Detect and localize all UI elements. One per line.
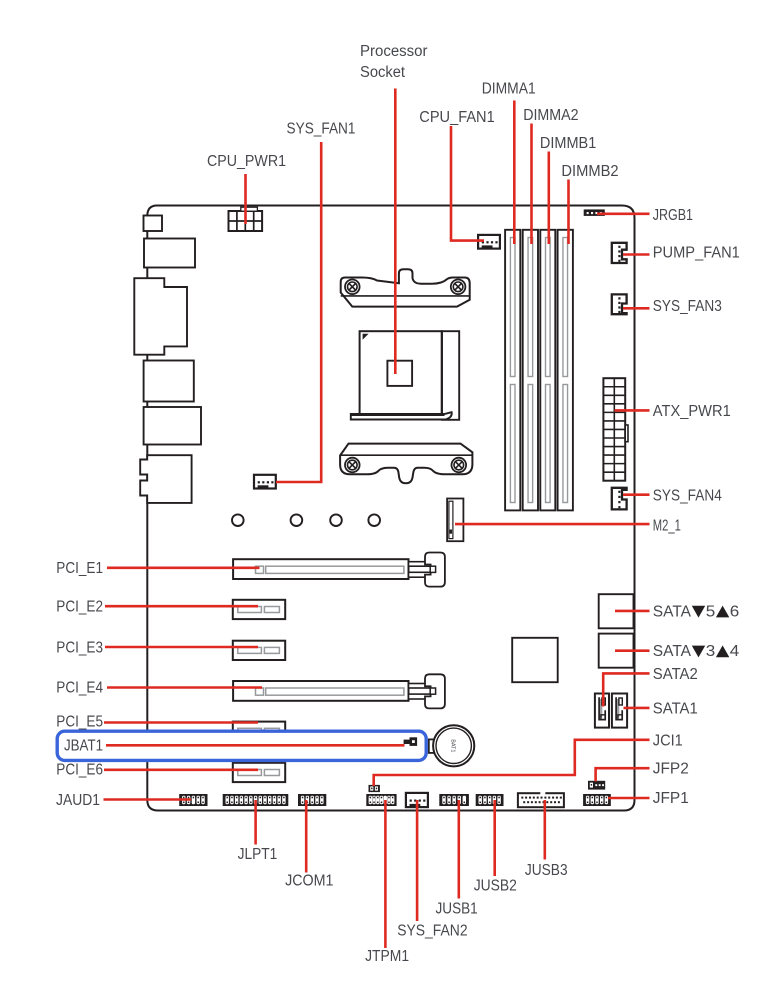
svg-text:JLPT1: JLPT1 [238, 846, 278, 863]
leader PCI_E4 [107, 686, 262, 689]
leader M2_1 [455, 523, 650, 526]
svg-text:SYS_FAN2: SYS_FAN2 [397, 923, 467, 940]
svg-text:SATA: SATA [653, 603, 692, 620]
svg-text:DIMMA1: DIMMA1 [482, 81, 536, 98]
connector SATA 5/6 block [599, 594, 634, 628]
svg-text:SATA2: SATA2 [653, 666, 698, 683]
leader PCI_E1 [107, 566, 260, 569]
CPU cooler retention bracket (top) [341, 269, 470, 306]
header JTPM1 [366, 794, 396, 806]
svg-text:CPU_FAN1: CPU_FAN1 [419, 109, 494, 126]
leader JTPM1 [384, 800, 387, 948]
connector SATA1 [612, 694, 627, 728]
CPU socket AM4 [360, 331, 442, 414]
io port video connector [134, 278, 187, 355]
leader JFP2 [596, 768, 650, 781]
motherboard outline [147, 206, 634, 811]
leader SYS_FAN3 [623, 307, 650, 310]
battery BAT1 [429, 725, 475, 766]
svg-text:JBAT1: JBAT1 [64, 738, 103, 755]
svg-text:JFP2: JFP2 [653, 761, 689, 778]
svg-text:PCI_E3: PCI_E3 [56, 639, 103, 656]
svg-text:DIMMB2: DIMMB2 [561, 163, 618, 180]
CPU socket bottom lever bar [351, 412, 452, 419]
leader SATA 5/6 [615, 610, 650, 613]
svg-text:JAUD1: JAUD1 [56, 792, 100, 809]
mounting holes [232, 514, 380, 526]
highlight box JBAT1 [57, 731, 426, 760]
leader Processor Socket [394, 89, 397, 375]
fan header SYS_FAN1 [254, 475, 276, 489]
DIMM slots DIMMA1 DIMMA2 DIMMB1 DIMMB2 [505, 230, 573, 511]
connector JCI1 [369, 785, 380, 792]
leader DIMMA1 [513, 101, 516, 245]
leader JUSB1 [457, 800, 460, 899]
leader DIMMA2 [530, 124, 533, 245]
connector SATA2 [595, 694, 609, 728]
slot PCI_E4 (x16) [233, 674, 445, 708]
svg-text:BAT1: BAT1 [450, 739, 456, 752]
svg-text:Processor: Processor [360, 43, 428, 60]
svg-text:PCI_E2: PCI_E2 [56, 598, 103, 615]
leader JFP1 [608, 797, 650, 800]
leader PCI_E6 [104, 768, 258, 771]
io port USB block [144, 239, 195, 268]
leader SYS_FAN1 [276, 142, 321, 482]
svg-text:5: 5 [706, 603, 716, 620]
slot PCI_E3 (x1) [233, 641, 285, 660]
leader PCI_E3 [105, 646, 258, 649]
leader DIMMB2 [567, 180, 570, 245]
svg-text:JFP1: JFP1 [653, 790, 689, 807]
connector M2_1 [447, 499, 463, 542]
leader SATA 3/4 [615, 649, 650, 652]
leader JRGB1 [597, 213, 650, 216]
io port LAN [144, 361, 194, 402]
leader JLPT1 [254, 800, 257, 845]
header JLPT1 [223, 794, 289, 806]
svg-text:JTPM1: JTPM1 [365, 948, 409, 965]
leader PCI_E2 [105, 605, 258, 608]
header JCOM1 [298, 794, 326, 806]
svg-text:6: 6 [730, 603, 740, 620]
header JAUD1 [179, 794, 207, 806]
connector ATX_PWR1 (24-pin) [603, 378, 628, 481]
svg-text:DIMMB1: DIMMB1 [540, 135, 596, 152]
leader DIMMB1 [547, 152, 550, 245]
connector CPU_PWR1 (8-pin power) [229, 207, 263, 231]
slot PCI_E2 (x1) [233, 600, 285, 619]
svg-text:SYS_FAN3: SYS_FAN3 [653, 298, 722, 315]
leader JAUD1 [104, 798, 192, 801]
leader CPU_PWR1 [244, 174, 247, 224]
leader JUSB3 [543, 800, 546, 860]
svg-text:SATA1: SATA1 [653, 700, 698, 717]
leader JBAT1 [106, 744, 405, 747]
leader SYS_FAN4 [623, 493, 650, 496]
io port audio jacks [140, 455, 191, 503]
leader SATA2 [603, 673, 649, 706]
svg-text:SATA: SATA [653, 643, 692, 660]
slot PCI_E6 (x1) [233, 763, 285, 782]
leader JCOM1 [305, 800, 308, 873]
svg-text:M2_1: M2_1 [653, 517, 681, 534]
connector SATA 3/4 block [599, 634, 634, 668]
svg-text:CPU_PWR1: CPU_PWR1 [207, 153, 286, 170]
svg-text:PUMP_FAN1: PUMP_FAN1 [653, 244, 740, 261]
svg-text:4: 4 [730, 643, 740, 660]
header JFP1 [583, 794, 611, 806]
svg-text:JUSB1: JUSB1 [436, 901, 478, 918]
chipset [512, 638, 558, 682]
header JUSB1 [439, 794, 469, 806]
fan header SYS_FAN2 [406, 793, 428, 807]
svg-text:Socket: Socket [360, 64, 406, 81]
svg-text:JCI1: JCI1 [653, 732, 683, 749]
svg-text:SYS_FAN4: SYS_FAN4 [653, 488, 722, 505]
io port USB lower [144, 407, 201, 445]
svg-text:JUSB2: JUSB2 [474, 878, 517, 895]
leader CPU_FAN1 [451, 126, 484, 241]
connector JFP2 [588, 781, 605, 790]
CPU socket right panel [442, 331, 459, 420]
leader JUSB2 [493, 800, 496, 876]
fan header SYS_FAN3 [612, 294, 627, 314]
CPU cooler retention bracket (bottom) [340, 444, 472, 484]
leader PUMP_FAN1 [623, 253, 650, 256]
svg-text:PCI_E6: PCI_E6 [56, 762, 103, 779]
svg-text:JCOM1: JCOM1 [285, 873, 333, 890]
jumper JBAT1 [404, 737, 418, 746]
leader SATA1 [624, 707, 650, 710]
svg-text:DIMMA2: DIMMA2 [523, 107, 578, 124]
fan header SYS_FAN4 [612, 488, 627, 510]
svg-text:SYS_FAN1: SYS_FAN1 [287, 120, 356, 137]
svg-text:3: 3 [706, 643, 716, 660]
header JUSB3 [518, 792, 564, 808]
header JUSB2 [476, 794, 504, 806]
slot PCI_E1 (x16) [233, 553, 445, 587]
svg-text:JRGB1: JRGB1 [653, 207, 693, 224]
svg-text:PCI_E5: PCI_E5 [56, 714, 103, 731]
leader JCI1 [374, 740, 650, 786]
svg-text:ATX_PWR1: ATX_PWR1 [653, 403, 731, 420]
svg-text:PCI_E1: PCI_E1 [56, 560, 103, 577]
connector JRGB1 [584, 209, 605, 216]
io port PS2 [144, 216, 163, 232]
fan header CPU_FAN1 [478, 235, 500, 249]
slot PCI_E5 (x1) [233, 722, 285, 741]
leader ATX_PWR1 [615, 409, 650, 412]
fan header PUMP_FAN1 [612, 243, 627, 263]
CPU socket center die [387, 361, 412, 386]
svg-text:PCI_E4: PCI_E4 [56, 680, 103, 697]
leader SYS_FAN2 [416, 800, 419, 921]
svg-text:JUSB3: JUSB3 [525, 862, 568, 879]
leader PCI_E5 [104, 721, 258, 724]
